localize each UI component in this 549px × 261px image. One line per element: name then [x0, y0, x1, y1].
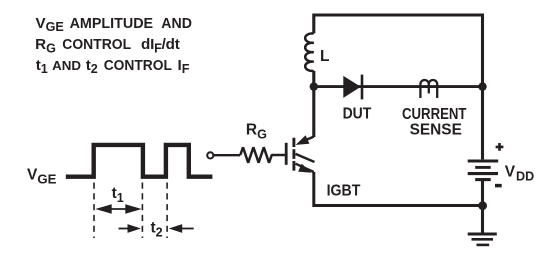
- node: junction dot right: [478, 82, 486, 90]
- inductor L coil: [305, 33, 314, 71]
- resistor RG: [240, 147, 286, 162]
- svg-text:DUT: DUT: [343, 106, 372, 123]
- svg-text:CONTROL: CONTROL: [62, 36, 131, 53]
- IGBT emitter diagonal with arrow: [296, 164, 314, 172]
- minus sign: [495, 184, 502, 188]
- diode DUT: [343, 76, 361, 98]
- gate terminal circle: [207, 152, 213, 158]
- IGBT gate bar: [285, 143, 288, 165]
- IGBT channel segments: [292, 138, 295, 171]
- wire: emitter vertical + bottom horizontal: [314, 172, 483, 206]
- waveform VGE pulse train: [66, 145, 213, 177]
- t2 right arrow pointing left: [182, 228, 194, 230]
- t1 double-headed arrow: [108, 208, 128, 210]
- svg-text:AMPLITUDE: AMPLITUDE: [70, 15, 154, 32]
- IGBT body diagonal: [296, 154, 315, 162]
- plus sign: [496, 143, 504, 151]
- wire: top rail with left/right vertical drops: [314, 15, 483, 159]
- t2 left arrow pointing right: [119, 228, 130, 230]
- svg-text:CURRENT: CURRENT: [402, 106, 467, 123]
- wire: terminal to resistor: [214, 154, 240, 156]
- svg-text:AND: AND: [161, 15, 192, 32]
- svg-text:L: L: [320, 48, 329, 65]
- svg-text:CONTROL: CONTROL: [104, 57, 172, 74]
- node: junction dot left: [310, 82, 318, 90]
- node: junction dot bottom right: [478, 201, 487, 210]
- dashed line at pulse1 falling edge: [141, 183, 143, 239]
- IGBT collector elbow + arrow into channel: [305, 137, 314, 141]
- svg-text:SENSE: SENSE: [410, 121, 462, 138]
- battery VDD plates: [468, 159, 499, 162]
- current sense coil: [420, 80, 437, 84]
- svg-text:AND: AND: [52, 58, 81, 73]
- wire: junction to ground: [481, 206, 484, 233]
- wire: left vertical from coil to IGBT collector: [312, 71, 315, 137]
- dashed line at pulse2 rising edge: [166, 183, 168, 239]
- ground: [468, 232, 497, 235]
- wire: battery bottom to junction: [481, 181, 484, 206]
- wire: diode row horizontal: [314, 85, 483, 88]
- dashed line at pulse1 rising edge: [93, 183, 95, 239]
- svg-text:IGBT: IGBT: [327, 182, 361, 199]
